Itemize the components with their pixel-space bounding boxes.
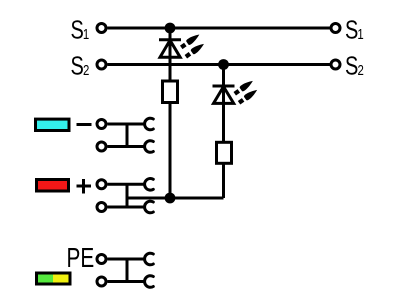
resistor R2 — [217, 142, 232, 163]
LED D2 triangle — [214, 87, 234, 104]
svg-text:1: 1 — [83, 25, 89, 42]
wire chain1 upper — [169, 28, 172, 80]
clamp group plus: top contact circle — [97, 180, 106, 189]
clamp hook minus top — [145, 118, 154, 130]
svg-text:S: S — [71, 15, 84, 44]
wire chain2 lower — [222, 165, 225, 199]
terminal circle S1 right — [331, 24, 340, 33]
LED D2 cathode bar — [213, 85, 235, 88]
svg-text:S: S — [345, 51, 358, 80]
label S2 right — [345, 51, 364, 80]
clamp hook plus top — [145, 179, 154, 191]
LED D1 cathode bar — [159, 38, 181, 41]
wire plus bottom row — [108, 206, 146, 209]
node junction bottom — [165, 193, 176, 204]
label minus — [77, 123, 92, 126]
terminal circle S1 left — [97, 24, 106, 33]
wire chain1 lower — [169, 104, 172, 198]
node junction on S1 — [165, 23, 176, 34]
wire plus top row — [108, 183, 146, 186]
wire rail S2 — [108, 63, 331, 66]
svg-text:2: 2 — [83, 61, 89, 78]
wire chain2 upper — [222, 65, 225, 142]
LED D2 emission arrows — [233, 78, 255, 96]
svg-text:PE: PE — [67, 243, 95, 273]
wire PE top row — [108, 258, 146, 261]
label plus — [77, 185, 92, 188]
clamp hook plus bottom — [145, 201, 154, 213]
svg-text:1: 1 — [357, 25, 363, 42]
clamp group PE: bottom contact circle — [97, 277, 106, 286]
wire rail S1 — [108, 27, 331, 30]
terminal circle S2 right — [331, 60, 340, 69]
LED D1 triangle — [160, 40, 180, 57]
LED D1 emission arrows — [179, 32, 201, 50]
clamp group minus: top contact circle — [97, 120, 106, 129]
indicator box red — [37, 180, 69, 192]
label PE — [67, 243, 95, 273]
clamp hook minus bottom — [145, 141, 154, 153]
label S2 left — [71, 51, 90, 80]
terminal circle S2 left — [97, 60, 106, 69]
wire plus bridge bar — [126, 184, 129, 207]
wire minus bridge bar — [126, 124, 129, 147]
clamp group plus: bottom contact circle — [97, 203, 106, 212]
wire PE bridge bar — [126, 259, 129, 282]
indicator box cyan — [36, 119, 70, 130]
clamp group PE: top contact circle — [97, 255, 106, 264]
clamp group minus: bottom contact circle — [97, 142, 106, 151]
svg-text:2: 2 — [357, 61, 363, 78]
resistor R1 — [163, 81, 178, 103]
clamp hook PE bottom — [145, 276, 154, 288]
indicator box green/yellow — [37, 273, 71, 284]
wire minus top row — [108, 123, 146, 126]
svg-text:S: S — [345, 15, 358, 44]
label S1 left — [71, 15, 90, 44]
node junction on S2 — [218, 59, 229, 70]
label S1 right — [345, 15, 364, 44]
wire minus bottom row — [108, 145, 146, 148]
clamp hook PE top — [145, 253, 154, 265]
wire bottom bus — [127, 197, 224, 200]
svg-text:S: S — [71, 51, 84, 80]
wire PE bottom row — [108, 280, 146, 283]
